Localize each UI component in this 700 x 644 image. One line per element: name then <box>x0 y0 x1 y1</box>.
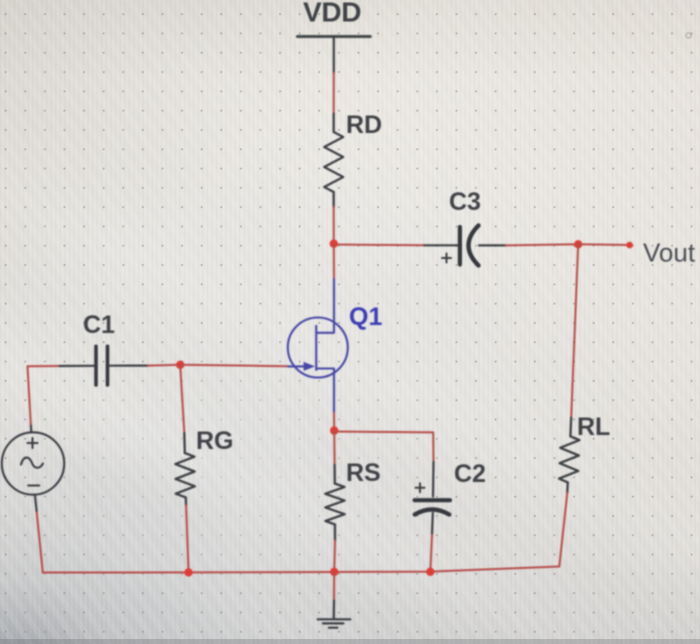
node drain junction <box>330 240 338 248</box>
transistor Q1 gate arrow <box>304 362 315 371</box>
wire gate node to Q1 gate <box>180 365 288 366</box>
wire gate node down to RG <box>180 365 184 433</box>
svg-text:C3: C3 <box>449 188 481 216</box>
wire drain node to Q1 drain <box>333 244 335 279</box>
power symbol VDD bar <box>297 35 370 38</box>
wire AC source to C1 <box>28 366 60 424</box>
wire Q1 source to source node <box>333 413 335 431</box>
node RG bottom junction <box>184 568 192 576</box>
transistor Q1 <box>288 279 348 413</box>
wire RD to drain node <box>333 207 335 244</box>
wire rail to ground <box>333 572 335 601</box>
resistor RD <box>324 114 343 208</box>
resistor RG <box>175 433 195 506</box>
wire C2 to bottom rail <box>430 535 432 572</box>
svg-text:C2: C2 <box>454 460 486 488</box>
node Vout junction <box>574 240 582 248</box>
AC source V1 <box>2 424 64 511</box>
svg-text:RS: RS <box>346 459 381 487</box>
svg-text:RG: RG <box>196 427 234 455</box>
wire RL to bottom rail <box>559 493 567 567</box>
capacitor C3 <box>424 226 506 266</box>
node RS bottom junction <box>330 568 338 576</box>
capacitor C1 <box>59 346 148 385</box>
wire drain node to C3 <box>334 244 424 247</box>
svg-text:Vout: Vout <box>643 238 696 268</box>
wire bottom rail to AC source <box>37 511 43 573</box>
node C2 bottom junction <box>426 568 434 576</box>
resistor RL <box>559 418 580 493</box>
wire VDD to RD <box>333 73 335 114</box>
node gate junction <box>176 361 184 369</box>
svg-text:RD: RD <box>346 111 382 139</box>
wire source node to C2 <box>334 432 433 462</box>
svg-text:Q1: Q1 <box>349 303 382 331</box>
dust speck <box>686 33 691 38</box>
wire C3 to Vout node <box>506 244 578 245</box>
wire source node down to RS <box>333 431 335 465</box>
wire RS to bottom rail <box>333 541 336 572</box>
wire Vout stub <box>578 243 629 246</box>
svg-text:VDD: VDD <box>303 0 361 28</box>
resistor RS <box>325 465 345 541</box>
node Vout terminal <box>626 242 633 249</box>
wire RG to bottom rail <box>186 506 188 571</box>
node source junction <box>330 426 338 434</box>
wire C1 to gate node <box>148 364 180 367</box>
power symbol VDD stub <box>333 37 335 74</box>
ground <box>318 600 351 627</box>
svg-text:RL: RL <box>577 413 610 441</box>
svg-text:C1: C1 <box>83 311 115 339</box>
wire Vout node down to RL <box>571 244 578 417</box>
capacitor C2 <box>415 462 450 535</box>
wire bottom rail <box>43 567 560 573</box>
